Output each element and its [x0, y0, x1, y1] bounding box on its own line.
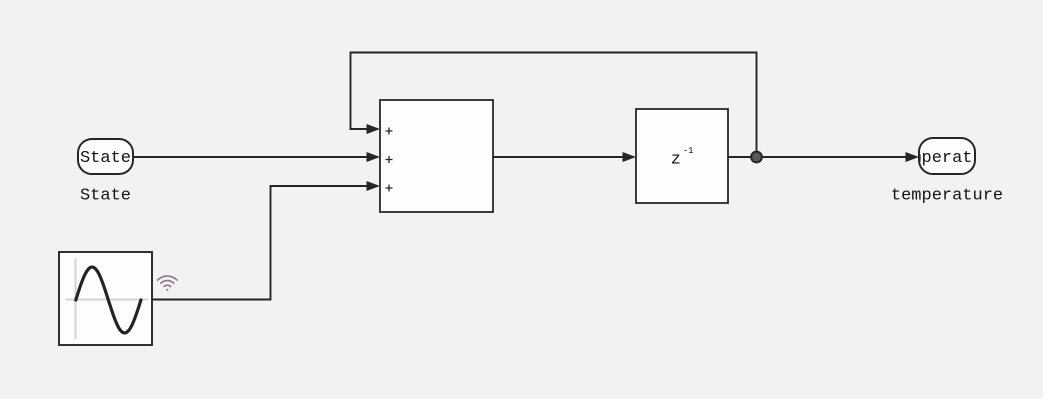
svg-text:State: State: [80, 187, 131, 206]
svg-text:z: z: [671, 150, 681, 169]
wire Sum to Unit Delay: [493, 152, 636, 162]
sum block U1: [380, 100, 493, 212]
unit delay block z^-1: [636, 109, 728, 203]
inport State oval: [78, 139, 133, 174]
wire Unit Delay to outport: [728, 152, 919, 162]
sine wave source block: [59, 252, 152, 345]
sum sign + (input 3): [386, 185, 393, 192]
svg-text:temperature: temperature: [891, 187, 1003, 206]
outport temperature oval: [891, 138, 1003, 174]
svg-text:State: State: [80, 149, 131, 168]
wireless logging icon: [158, 276, 178, 291]
wire State to Sum: [133, 152, 380, 162]
sum sign + (input 2): [386, 156, 393, 163]
wire Sine Wave to Sum input 3: [152, 181, 380, 300]
feedback wire from junction to Sum input 1: [351, 53, 757, 158]
svg-text:-1: -1: [683, 146, 694, 156]
junction dot: [751, 152, 762, 163]
sum sign + (input 1): [386, 128, 393, 135]
